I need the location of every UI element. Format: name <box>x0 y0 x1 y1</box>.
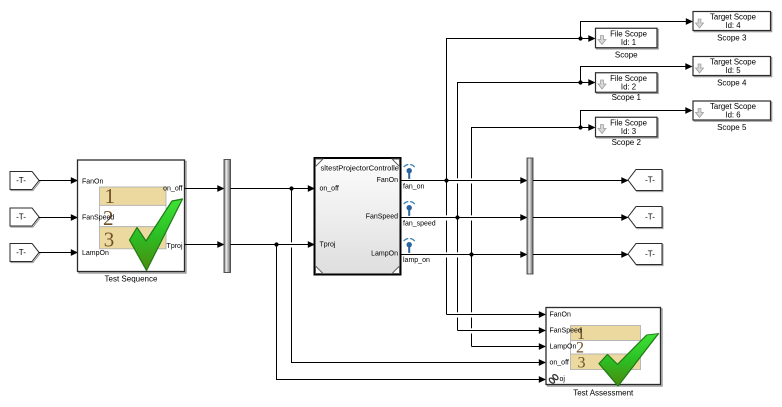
junction scope3 branch <box>578 125 582 129</box>
svg-text:Scope 1: Scope 1 <box>612 93 642 102</box>
Target Scope Id6 block <box>693 101 772 121</box>
Test Assessment icon band row 1 <box>571 326 641 344</box>
wire model FanOn to bar2 <box>401 177 528 184</box>
Test Sequence icon band row 2 <box>100 205 167 230</box>
test point icon fan_speed <box>404 202 414 216</box>
From block -T- (FanOn source) <box>10 172 40 191</box>
svg-text:Id: 4: Id: 4 <box>725 21 741 30</box>
wire lamp_on down-branch into Test Assessment LampOn <box>472 343 547 350</box>
svg-text:oj: oj <box>560 376 566 383</box>
fan_on branch up to File Scope 1 <box>447 35 596 314</box>
junction lamp_on <box>469 252 473 256</box>
svg-text:FanSpeed: FanSpeed <box>366 214 398 221</box>
wire branch to Target Scope Id6 <box>581 107 693 127</box>
wire From2 to Test Sequence FanSpeed <box>39 214 78 221</box>
svg-text:Id: 5: Id: 5 <box>725 66 741 75</box>
svg-text:3: 3 <box>104 228 115 252</box>
junction fan_speed <box>455 215 459 219</box>
svg-text:FanOn: FanOn <box>377 177 399 184</box>
junction fan_on <box>444 178 448 182</box>
signal specification bar 2 <box>527 158 533 274</box>
wire Tproj branch down to Test Assessment <box>277 245 547 383</box>
svg-text:Scope: Scope <box>615 51 638 60</box>
wire fan_speed down-branch into Test Assessment FanSpeed <box>458 327 547 334</box>
junction scope1 branch <box>578 36 582 40</box>
Target Scope Id5 block <box>693 57 772 77</box>
svg-text:FanOn: FanOn <box>82 179 104 186</box>
svg-text:Tproj: Tproj <box>320 242 336 249</box>
junction on_off branch <box>289 186 293 190</box>
svg-text:-T-: -T- <box>645 250 655 259</box>
junction scope2 branch <box>578 80 582 84</box>
wire From3 to Test Sequence LampOn <box>39 249 78 256</box>
Target Scope Id4 block <box>693 12 772 32</box>
wire on_off branch down to Test Assessment <box>292 189 547 366</box>
Test Assessment block <box>546 308 662 387</box>
Goto block -T- (3) <box>628 244 663 266</box>
wire bar1 to model Tproj <box>231 241 316 248</box>
test point icon fan_on <box>404 165 414 179</box>
svg-text:Test Sequence: Test Sequence <box>105 275 158 284</box>
Test Assessment icon band row 2 <box>571 340 641 357</box>
lamp_on branch up to File Scope 3 <box>472 124 596 346</box>
wire crossing gaps (vertical lines break at non-connected crossings) <box>287 178 476 333</box>
Goto block -T- (2) <box>628 207 663 229</box>
svg-text:Scope 2: Scope 2 <box>612 138 642 147</box>
wire bar1 to model on_off <box>231 185 316 192</box>
svg-text:1: 1 <box>105 184 116 208</box>
svg-text:Scope 4: Scope 4 <box>717 79 747 88</box>
signal specification bar 1 <box>224 160 231 273</box>
svg-text:on_off: on_off <box>320 186 339 193</box>
From block -T- (FanSpeed source) <box>10 208 40 227</box>
Test Assessment icon band row 3 <box>571 354 641 372</box>
svg-text:LampOn: LampOn <box>550 344 577 351</box>
wire branch to Target Scope Id5 <box>581 63 693 82</box>
svg-text:Scope 5: Scope 5 <box>717 123 747 132</box>
File Scope Id2 block <box>596 73 659 94</box>
Test Assessment chain icon (Tproj propagated) <box>548 374 565 385</box>
svg-text:fan_speed: fan_speed <box>403 221 436 228</box>
svg-text:on_off: on_off <box>163 186 182 193</box>
wire bar2 to Goto3 <box>533 251 629 258</box>
svg-text:3: 3 <box>578 355 586 372</box>
svg-text:FanOn: FanOn <box>550 312 572 319</box>
model block sltestProjectorController <box>315 158 402 275</box>
File Scope Id1 block <box>596 28 659 49</box>
wire model FanSpeed to bar2 <box>401 214 528 221</box>
svg-text:Scope 3: Scope 3 <box>717 34 747 43</box>
svg-text:LampOn: LampOn <box>371 251 398 258</box>
svg-text:on_off: on_off <box>550 360 569 367</box>
svg-text:Id: 1: Id: 1 <box>621 38 636 47</box>
svg-text:Id: 6: Id: 6 <box>725 110 740 119</box>
svg-text:-T-: -T- <box>16 248 26 257</box>
fan_speed branch up to File Scope 2 <box>458 79 596 330</box>
Goto block -T- (1) <box>628 170 663 192</box>
svg-text:-T-: -T- <box>645 176 655 185</box>
svg-text:sltestProjectorController: sltestProjectorController <box>321 164 402 173</box>
svg-text:Test Assessment: Test Assessment <box>573 389 634 398</box>
svg-text:-T-: -T- <box>16 213 26 222</box>
svg-text:-T-: -T- <box>16 176 26 185</box>
svg-text:FanSpeed: FanSpeed <box>550 328 582 335</box>
Test Sequence icon band row 1 <box>100 184 167 208</box>
wire fan_on down-branch into Test Assessment FanOn <box>447 311 547 318</box>
File Scope Id3 block <box>596 117 659 138</box>
svg-text:Tproj: Tproj <box>167 243 183 250</box>
From block -T- (LampOn source) <box>10 244 40 263</box>
Test Sequence icon band row 3 <box>100 227 167 252</box>
wire branch to Target Scope Id4 <box>581 18 694 38</box>
Test Assessment green check icon <box>599 334 658 387</box>
wire Test Sequence Tproj to bar1 <box>185 241 225 248</box>
Test Sequence block <box>78 160 187 273</box>
junction Tproj branch <box>274 242 278 246</box>
svg-text:lamp_on: lamp_on <box>403 257 430 264</box>
test point icon lamp_on <box>404 239 414 253</box>
svg-text:Id: 3: Id: 3 <box>621 127 636 136</box>
wire model LampOn to bar2 <box>401 251 528 258</box>
Test Sequence green check icon <box>130 199 183 271</box>
svg-text:LampOn: LampOn <box>82 250 109 257</box>
svg-text:FanSpeed: FanSpeed <box>82 215 114 222</box>
wire bar2 to Goto2 <box>533 214 629 221</box>
wire bar2 to Goto1 <box>533 177 629 184</box>
wire From1 to Test Sequence FanOn <box>39 177 78 184</box>
svg-text:-T-: -T- <box>645 213 655 222</box>
svg-text:Id: 2: Id: 2 <box>621 82 636 91</box>
wire Test Sequence on_off to bar1 <box>185 185 225 192</box>
svg-text:fan_on: fan_on <box>403 184 425 191</box>
